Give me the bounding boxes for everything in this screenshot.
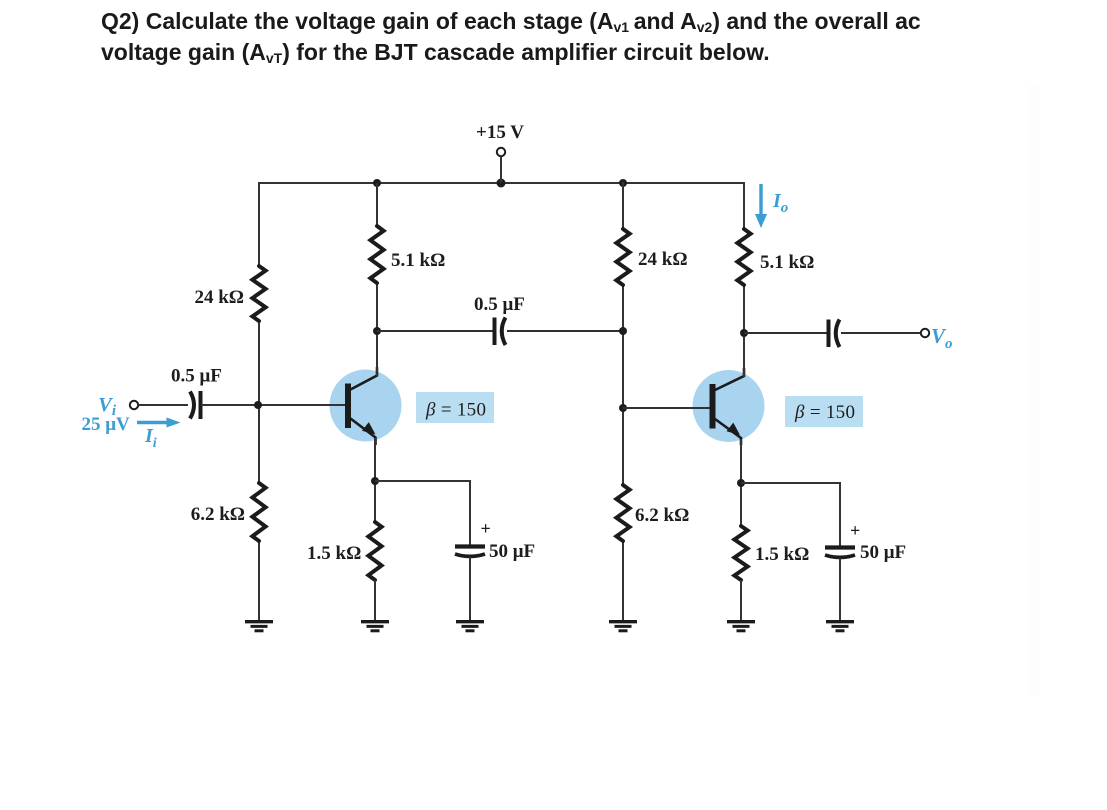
wire emitter branch stage 1 [374,438,376,522]
node emitter junction stage 1 [371,477,379,485]
transistor Q2 highlight circle [693,370,765,442]
svg-text:Ii: Ii [144,425,157,451]
svg-text:6.2 kΩ: 6.2 kΩ [191,504,245,525]
output terminal Vo [921,329,929,337]
svg-text:50 μF: 50 μF [489,541,535,562]
node base junction stage 2 [619,404,627,412]
label Io [772,190,788,216]
svg-text:0.5 μF: 0.5 μF [171,366,222,387]
label + polarity (stage 2 bypass) [850,521,860,541]
wire emitter branch stage 2 [740,439,742,526]
label 24 kOhm (stage 1) [194,287,244,308]
wire output right segment [841,332,921,334]
svg-text:Io: Io [772,190,788,216]
label 5.1 kOhm (stage 2) [760,252,814,273]
capacitor C4 0.5 uF (output coupling) [829,320,840,348]
node supply junction at 24k stage2 [619,179,627,187]
wire interstage right segment [507,330,623,332]
node supply tap junction at 5.1k stage1 [373,179,381,187]
svg-text:50 μF: 50 μF [860,542,906,563]
label 24 kOhm (stage 2) [638,249,688,270]
label 1.5 kOhm (stage 1) [307,543,361,564]
svg-text:β = 150: β = 150 [425,400,486,421]
svg-text:+: + [850,521,860,541]
wire bypass cap to ground stage 1 [469,557,471,620]
svg-text:+15 V: +15 V [476,122,524,143]
wire left bias branch vertical [258,182,260,620]
label Vo [931,324,953,352]
ground (stage 2 bypass) [826,622,854,631]
wire coupling cap to base node [201,404,347,406]
label 50 uF (stage 1) [489,541,535,562]
label 50 uF (stage 2) [860,542,906,563]
wire resistor to ground stage 1 emitter [374,580,376,620]
resistor R1 24 kOhm (stage 1 upper bias) [252,266,265,321]
svg-text:25 μV: 25 μV [82,414,131,435]
wire interstage left segment [377,330,493,332]
resistor R6 6.2 kOhm (stage 2 lower bias) [616,485,629,541]
resistor R4 1.5 kOhm (stage 1 emitter) [368,522,381,580]
wire output left segment [744,332,827,334]
label beta = 150 (stage 1) [416,392,494,423]
capacitor C5 50 uF (stage 2 bypass) [825,548,855,558]
label 6.2 kOhm (stage 1) [191,504,245,525]
label 0.5 uF (interstage) [474,294,525,315]
resistor R3 5.1 kOhm (stage 1 collector) [370,226,383,283]
wire bypass cap to ground stage 2 [839,558,841,620]
wire stage 2 bias branch vertical [622,182,624,620]
node emitter junction stage 2 [737,479,745,487]
node +15V junction [497,179,506,188]
resistor R8 1.5 kOhm (stage 2 emitter) [734,526,747,580]
wire emitter to bypass cap stage 1 [375,481,470,545]
transistor Q2 [710,368,745,445]
svg-text:5.1 kΩ: 5.1 kΩ [760,252,814,273]
arrow Ii input current [137,418,181,428]
capacitor C2 0.5 uF (interstage coupling) [495,318,506,346]
wire collector branch stage 2 [743,182,745,377]
transistor Q1 [345,367,377,445]
wire emitter to bypass cap stage 2 [741,483,840,546]
label 5.1 kOhm (stage 1) [391,250,445,271]
node base junction stage 1 [254,401,262,409]
wire resistor to ground stage 2 emitter [740,580,742,620]
ground (stage 1 emitter) [361,622,389,631]
ground (stage 1 bypass) [456,622,484,631]
label Ii [144,425,157,451]
svg-text:+: + [481,519,491,539]
wire base stage 2 [623,407,712,409]
wire top supply rail [259,182,744,184]
label 0.5 uF (input) [171,366,222,387]
capacitor C1 0.5 uF (input coupling) [190,391,201,419]
input terminal Vi [130,401,138,409]
svg-text:0.5 μF: 0.5 μF [474,294,525,315]
svg-text:5.1 kΩ: 5.1 kΩ [391,250,445,271]
svg-text:24 kΩ: 24 kΩ [194,287,244,308]
capacitor C3 50 uF (stage 1 bypass) [455,547,485,557]
svg-text:1.5 kΩ: 1.5 kΩ [307,543,361,564]
resistor R5 24 kOhm (stage 2 upper bias) [616,229,629,285]
resistor R2 6.2 kOhm (stage 1 lower bias) [252,483,265,541]
label + polarity (stage 1 bypass) [481,519,491,539]
label beta = 150 (stage 2) [785,396,863,427]
node interstage junction at stage 2 bias [619,327,627,335]
ground (stage 2 bias branch) [609,622,637,631]
wire input to coupling cap [139,404,189,406]
arrow Io output current [755,184,767,228]
label 25 uV [82,414,131,435]
svg-text:Vo: Vo [931,324,953,352]
wire collector branch stage 1 [376,183,378,376]
svg-text:6.2 kΩ: 6.2 kΩ [635,505,689,526]
ground (stage 2 emitter) [727,622,755,631]
label 6.2 kOhm (stage 2) [635,505,689,526]
faint page scan strip [1029,85,1040,695]
svg-text:1.5 kΩ: 1.5 kΩ [755,544,809,565]
svg-text:24 kΩ: 24 kΩ [638,249,688,270]
ground (stage 1 bias branch) [245,622,273,631]
node collector junction stage 2 [740,329,748,337]
transistor Q1 highlight circle [330,370,402,442]
node collector junction stage 1 [373,327,381,335]
resistor R7 5.1 kOhm (stage 2 collector) [737,229,750,285]
svg-text:β = 150: β = 150 [794,402,855,423]
+15 V supply terminal [476,122,524,183]
label Vi [98,394,117,419]
label 1.5 kOhm (stage 2) [755,544,809,565]
